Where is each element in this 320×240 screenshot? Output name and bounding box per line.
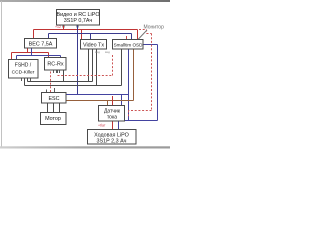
wire blue ESC to current sensor	[66, 95, 129, 107]
svg-text:+бат: +бат	[98, 124, 106, 128]
box ESC	[42, 93, 67, 104]
red tick near OSD top	[126, 36, 128, 40]
box camera FSHD CCD-Killer	[9, 60, 39, 79]
box Video Tx	[81, 40, 107, 50]
wire dark RC-Rx to OSD	[28, 49, 93, 82]
svg-text:Video Tx: Video Tx	[83, 42, 104, 48]
camera pins	[22, 78, 31, 81]
wire blue BEC to camera and RC-Rx	[17, 48, 61, 60]
svg-text:ESC: ESC	[48, 96, 59, 102]
left border	[1, 1, 2, 147]
wire navy bus	[49, 33, 132, 35]
box BEC	[25, 39, 57, 49]
svg-text:Smalltim OSD: Smalltim OSD	[114, 42, 144, 47]
wire navy drop to BEC	[48, 34, 50, 39]
svg-text:BEC 7,5A: BEC 7,5A	[29, 42, 53, 48]
box video RC lipo	[57, 10, 100, 26]
box drive lipo	[88, 130, 137, 145]
wire dashed monitor	[129, 30, 152, 119]
wire dark motor wires	[48, 103, 60, 113]
box current sensor	[99, 106, 125, 122]
svg-text:Мотор: Мотор	[45, 116, 61, 122]
wire red through current sensor	[112, 96, 114, 130]
battery pin ticks	[64, 25, 78, 28]
wire navy drop to OSD	[131, 34, 133, 40]
svg-text:вид: вид	[105, 50, 110, 54]
wire blue OSD right side to current sensor	[125, 45, 158, 121]
svg-text:3S1P 2,3 Ач: 3S1P 2,3 Ач	[97, 138, 127, 144]
RC-Rx pins	[54, 70, 60, 73]
svg-text:RC-Rx: RC-Rx	[47, 62, 63, 68]
wire brown ESC bus to OSD	[66, 49, 134, 107]
wire blue OSD bottom drop	[128, 49, 130, 121]
svg-text:CCD-Killer: CCD-Killer	[12, 70, 35, 76]
wire blue sensor to battery	[118, 121, 120, 130]
svg-text:вид: вид	[95, 50, 100, 54]
ESC top pins	[47, 88, 55, 93]
svg-text:Монитор: Монитор	[144, 25, 165, 31]
monitor leader line	[138, 30, 147, 40]
wire dashed RC-Rx to OSD	[57, 70, 59, 73]
wire red battery+ drop	[63, 25, 65, 30]
svg-text:3S1P 0,7Ач: 3S1P 0,7Ач	[64, 18, 93, 24]
wire red drop to OSD	[137, 30, 139, 40]
box Smalltim OSD	[113, 40, 144, 50]
wire red drop to VideoTx	[81, 30, 83, 40]
wire dashed throttle RC-Rx to ESC	[50, 72, 52, 93]
wire red BEC to camera and RC-Rx	[12, 48, 49, 60]
bottom border	[0, 146, 170, 148]
svg-text:+12: +12	[55, 25, 61, 29]
svg-text:FSHD /: FSHD /	[15, 63, 32, 69]
box Motor	[41, 113, 67, 125]
wire dark camera video	[25, 49, 122, 86]
wire red +12 bus	[34, 29, 138, 31]
box RC-Rx	[45, 58, 67, 71]
top border	[0, 0, 170, 2]
wire navy battery- long drop	[77, 25, 79, 95]
svg-text:тока: тока	[107, 115, 117, 121]
wire navy drop to VideoTx	[90, 34, 92, 40]
wire red drop to BEC	[33, 30, 35, 39]
